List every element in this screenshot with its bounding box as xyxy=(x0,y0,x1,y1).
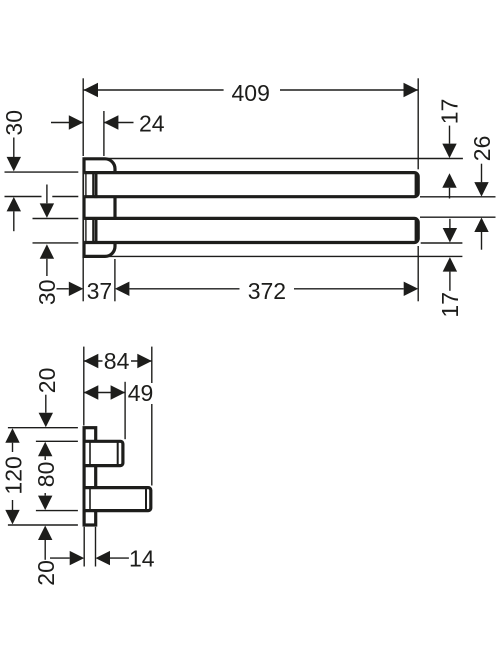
lower bar hinge lines xyxy=(85,218,87,242)
svg-text:49: 49 xyxy=(128,380,154,406)
dimension 24 left-pointing arrow xyxy=(104,115,119,129)
dimension 409 left arrow xyxy=(84,83,99,97)
dimension 37 line xyxy=(57,288,69,290)
dimension 80 line upper xyxy=(44,456,46,460)
dimension 80 line lower xyxy=(44,493,46,496)
dimension 49 line xyxy=(84,392,125,394)
extension line upper bar right end (x=125.1) xyxy=(124,382,126,439)
dimension 26 stem xyxy=(481,164,483,183)
dimension 49 right arrow xyxy=(111,385,126,399)
svg-text:14: 14 xyxy=(129,546,155,572)
svg-text:17: 17 xyxy=(437,292,463,318)
dimension 120 up arrow xyxy=(5,428,19,443)
lower bar inner lines (side view) xyxy=(89,488,91,511)
dimension 30 bottom tail stem xyxy=(46,259,48,276)
svg-text:30: 30 xyxy=(34,280,60,306)
dimension 17 top tail stem xyxy=(449,188,451,199)
extension line side plate left bottom (x=84.1) xyxy=(83,527,85,567)
dimension 14 line xyxy=(50,557,70,559)
extension line plate right bottom (x=114.9) xyxy=(114,259,116,301)
dimension 84 line xyxy=(84,360,103,362)
dimension 30 bottom up arrow xyxy=(40,244,54,258)
dimension 30 top down arrow xyxy=(7,157,21,172)
extension line pivot (x=104) xyxy=(103,111,105,156)
extension line bar2 top left (y=218.5) xyxy=(33,218,79,220)
dimension 49 left arrow xyxy=(84,385,99,399)
dimension 17 top down arrow xyxy=(442,144,456,159)
dimension 26 up arrow xyxy=(474,218,488,233)
dimension 30 top up arrow xyxy=(7,197,21,212)
dimension 120 line upper xyxy=(12,443,14,452)
dimension 30 bottom down arrow xyxy=(40,203,54,218)
svg-text:409: 409 xyxy=(232,80,270,106)
extension line side plate bottom left (y=522.9) xyxy=(8,524,78,526)
dimension 409 line xyxy=(84,89,224,91)
dimension 30 top tail stem xyxy=(13,211,15,231)
extension line bar1 bottom left (y=196.5) xyxy=(5,196,42,198)
dimension 26 tail stem xyxy=(481,232,483,250)
lower bar (side view) xyxy=(86,488,151,511)
dimension 26 down arrow xyxy=(474,182,488,197)
dimension 30 top stem xyxy=(13,138,15,159)
dimension 17 top up arrow xyxy=(442,173,456,188)
dimension 17 bottom down arrow xyxy=(443,228,457,243)
dimension 17 bottom up arrow xyxy=(443,257,457,272)
dimension 372 left arrow xyxy=(115,282,129,296)
svg-text:80: 80 xyxy=(33,462,59,488)
upper bar hinge lines xyxy=(85,173,87,197)
extension line bar2 bottom left (y=242.9) xyxy=(33,242,79,244)
svg-text:37: 37 xyxy=(87,278,113,304)
extension line plate bottom right (y=256.4) xyxy=(105,255,462,257)
extension line side plate left (x=83.7) xyxy=(83,347,85,426)
dimension 17 bottom stem to label xyxy=(449,272,451,291)
svg-text:84: 84 xyxy=(104,348,130,374)
dimension 17 bottom stem from bar2 xyxy=(449,219,451,229)
dimension 20 top stem xyxy=(45,395,47,413)
extension line side plate top left (y=427.4) xyxy=(8,427,78,429)
dimension 24 right-pointing arrow xyxy=(69,115,84,129)
dimension 80 down arrow xyxy=(38,496,52,511)
extension line plate left bottom (x=83) xyxy=(82,258,84,302)
upper towel bar (front view) xyxy=(84,173,418,197)
dimension 20 bottom up arrow xyxy=(38,526,52,541)
dimension 20 bottom stem xyxy=(44,540,46,560)
dimension 120 line lower xyxy=(12,500,14,510)
svg-text:26: 26 xyxy=(469,136,495,162)
extension line bar right end bottom (x=418.2) xyxy=(417,246,419,301)
upper bar inner lines (side view) xyxy=(89,441,91,465)
svg-text:17: 17 xyxy=(437,99,463,125)
dimension 37 right-pointing arrow xyxy=(69,282,84,296)
svg-text:30: 30 xyxy=(1,110,27,136)
extension line side plate right bottom (x=94.4) xyxy=(95,527,97,567)
svg-text:120: 120 xyxy=(0,456,26,494)
extension line plate top right (y=158.3) xyxy=(105,158,463,160)
dimension 14 left-pointing arrow xyxy=(96,551,111,565)
extension line lower bar right end (x=151.2) xyxy=(151,347,153,383)
dimension 17 top stem xyxy=(449,126,451,144)
dimension 409 right arrow xyxy=(404,83,419,97)
svg-text:24: 24 xyxy=(139,111,165,137)
dimension 30 bottom stem xyxy=(46,185,48,204)
svg-text:20: 20 xyxy=(34,368,60,394)
dimension 120 down arrow xyxy=(5,510,19,525)
lower towel bar (front view) xyxy=(84,218,418,242)
extension line bar right end (x=418) top xyxy=(417,78,419,169)
dimension 20 top down arrow xyxy=(39,413,53,428)
extension line bar2 bottom right (y=243) xyxy=(421,242,463,244)
dimension 14 right-pointing arrow xyxy=(70,551,85,565)
upper bar (side view) xyxy=(86,441,123,465)
dimension 24 line xyxy=(51,122,83,124)
svg-text:372: 372 xyxy=(248,278,286,304)
svg-text:20: 20 xyxy=(33,560,59,586)
wall plate (front view) xyxy=(84,159,115,257)
wall plate (side view) xyxy=(84,428,96,525)
extension line left of plate (x=83) xyxy=(82,78,84,156)
dimension 84 right arrow xyxy=(137,354,152,368)
extension line side bar2 bottom left (y=509.2) xyxy=(36,510,78,512)
dimension 80 up arrow xyxy=(38,442,52,457)
extension line bar2 top right (y=217.2) xyxy=(420,216,496,218)
dimension 372 right arrow xyxy=(404,282,419,296)
dimension 84 left arrow xyxy=(84,354,99,368)
extension line bar1 top left (y=172) xyxy=(5,171,79,173)
dimension 372 line xyxy=(129,288,239,290)
extension line bar1 bottom right (y=196.8) xyxy=(420,196,496,198)
extension line side bar1 top left (y=440.9) xyxy=(36,440,78,442)
